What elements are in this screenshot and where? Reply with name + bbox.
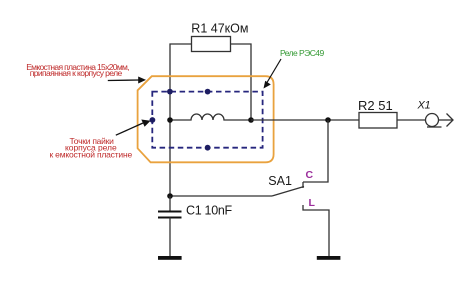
solder point dot left edge <box>150 117 156 123</box>
relay case (dashed) <box>152 92 262 148</box>
svg-text:Реле РЭС49: Реле РЭС49 <box>280 48 324 58</box>
svg-text:R1 47кОм: R1 47кОм <box>191 22 248 36</box>
wire C1 bottom plate to ground <box>169 218 171 257</box>
capacitive plate outline (orange) <box>138 76 274 162</box>
wire R1 left lead / left rail down to C1 node <box>170 44 192 196</box>
ground bar under switch <box>317 256 341 260</box>
svg-text:X1: X1 <box>417 100 431 112</box>
svg-text:припаянная к корпусу реле: припаянная к корпусу реле <box>30 68 123 78</box>
solder point dot bottom <box>205 145 211 151</box>
wire junction down to switch contact C <box>303 120 328 182</box>
resistor R2 <box>359 113 397 129</box>
node C1 junction <box>167 193 173 199</box>
arrow from plate text to orange outline <box>108 77 146 84</box>
svg-text:L: L <box>309 197 316 209</box>
svg-text:C1 10nF: C1 10nF <box>186 204 233 218</box>
svg-text:к емкостной пластине: к емкостной пластине <box>50 149 133 159</box>
wire main output line <box>251 119 359 121</box>
wire node to C1 top plate <box>169 196 171 211</box>
contact L with tick <box>303 205 329 256</box>
node output junction <box>325 117 331 123</box>
wire C1 node to switch pole <box>170 195 272 197</box>
contact C tick <box>302 182 304 188</box>
arrow from relay label to case <box>264 59 282 89</box>
connector X1 <box>426 114 454 128</box>
ground bar under C1 <box>158 256 182 260</box>
wire R1 right lead / right rail down to coil <box>231 44 252 120</box>
solder point dot top-left <box>167 89 173 95</box>
relay coil L <box>170 114 251 120</box>
node coil left <box>167 117 173 123</box>
svg-text:R2 51: R2 51 <box>358 98 393 113</box>
wire R2 to X1 <box>397 119 426 121</box>
switch SA1 blade <box>272 187 304 197</box>
capacitor C1 <box>158 212 182 218</box>
arrow from solder text to left-edge dot <box>116 120 151 136</box>
svg-text:SA1: SA1 <box>268 174 292 188</box>
svg-text:C: C <box>306 169 314 181</box>
node coil right <box>248 117 254 123</box>
solder point dot top-mid <box>205 89 211 95</box>
resistor R1 <box>192 37 231 52</box>
